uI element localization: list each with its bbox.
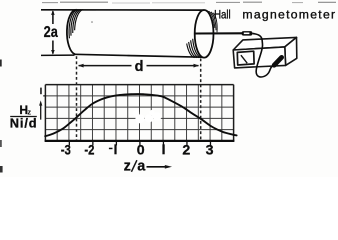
svg-text:Ni/d: Ni/d (10, 115, 37, 130)
svg-text:z: z (124, 159, 131, 175)
svg-text:3: 3 (206, 143, 214, 159)
svg-text:a: a (137, 159, 146, 175)
svg-text:0: 0 (137, 143, 145, 159)
svg-text:Hall: Hall (214, 8, 231, 22)
svg-text:d: d (135, 59, 144, 75)
svg-text:2a: 2a (44, 24, 59, 41)
svg-text:magnetometer: magnetometer (242, 8, 335, 22)
svg-text:-3: -3 (61, 143, 71, 159)
svg-text:2: 2 (182, 143, 190, 159)
svg-text:-2: -2 (84, 143, 94, 159)
